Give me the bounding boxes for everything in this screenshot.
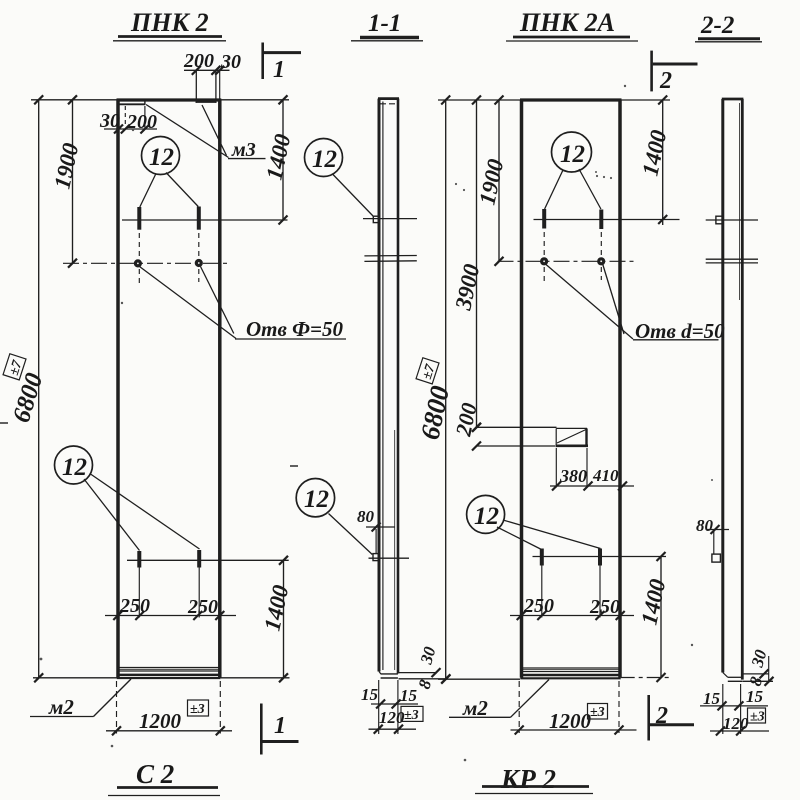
dimension 1200 (PNK2)	[106, 681, 232, 735]
dimension 1900 (PNK2A)	[474, 96, 508, 266]
svg-text:15: 15	[703, 689, 721, 708]
svg-text:12: 12	[474, 503, 499, 530]
bottom tie bars (PNK2A)	[533, 549, 667, 566]
section marker 2 top	[652, 51, 698, 94]
bottom tie bars (PNK2)	[127, 550, 289, 568]
title C 2	[108, 759, 220, 796]
opening rectangle (PNK2A)	[556, 428, 589, 446]
title PNK 2	[113, 8, 226, 41]
dimension 1400 bottom (PNK2)	[221, 556, 294, 683]
hole right	[195, 259, 203, 267]
bottom-left extension (PNK2A)	[438, 678, 520, 680]
svg-text:200: 200	[126, 111, 157, 133]
dimension 200 (PNK2A opening)	[450, 401, 556, 451]
svg-text:Отв d=50: Отв d=50	[635, 319, 725, 343]
dimensions 250/250 (PNK2)	[105, 568, 236, 621]
label M2 (PNK2A)	[449, 680, 549, 721]
PNK2 top dim 200/30	[183, 50, 241, 75]
section 2-2 bottom chamfer	[723, 673, 743, 682]
title PNK 2A	[506, 8, 638, 41]
section 2-2 bottom dims 15/15/120	[700, 684, 769, 736]
dimensions 380/410 (PNK2A)	[550, 448, 634, 491]
title 2-2	[695, 12, 762, 42]
svg-text:м2: м2	[462, 696, 488, 720]
section 2-2 anchor square top	[706, 216, 758, 224]
svg-text:200: 200	[183, 50, 214, 72]
panel PNK2A bottom strip M2	[520, 668, 620, 678]
label M2 (PNK2)	[30, 679, 131, 719]
svg-text:380: 380	[559, 466, 587, 486]
label M3 + leaders	[146, 105, 266, 162]
svg-text:30: 30	[99, 110, 120, 132]
title KR 2	[475, 764, 593, 794]
svg-text:410: 410	[592, 466, 619, 485]
svg-text:1: 1	[274, 713, 286, 739]
hole lines 1-1	[364, 256, 416, 262]
title 1-1	[351, 10, 423, 41]
svg-text:12: 12	[304, 486, 329, 513]
callout circle 12 (1-1 lower) + 80 dim + anchor square	[296, 479, 409, 561]
dimension 3900 (PNK2A)	[450, 96, 484, 432]
label Otv d=50 + leaders	[546, 265, 725, 344]
tie bar left	[137, 207, 141, 230]
svg-text:15: 15	[361, 685, 379, 704]
svg-text:12: 12	[312, 146, 337, 173]
PNK2 top-right notch	[196, 71, 220, 103]
PNK2A top-left extension	[438, 99, 520, 101]
speckles	[0, 423, 298, 466]
svg-text:250: 250	[119, 595, 150, 617]
callout circle 12 (PNK2A lower)	[467, 495, 601, 549]
svg-text:С 2: С 2	[136, 759, 174, 789]
dimension 1900 (PNK2)	[49, 95, 83, 267]
svg-text:15: 15	[746, 687, 764, 706]
holes row PNK2	[63, 233, 229, 284]
dimension 6800 (PNK2A)	[415, 96, 456, 684]
svg-text:12: 12	[560, 141, 585, 168]
panel PNK2 bottom strip M2	[117, 668, 221, 679]
svg-text:250: 250	[187, 596, 218, 618]
svg-text:1: 1	[273, 57, 285, 83]
svg-text:30: 30	[220, 51, 241, 73]
callout circle 12 (PNK2 top)	[140, 137, 198, 208]
svg-text:м3: м3	[231, 139, 256, 161]
svg-text:250: 250	[523, 595, 554, 617]
svg-text:м2: м2	[48, 695, 74, 719]
dimensions 250/250 (PNK2A)	[510, 566, 634, 621]
svg-text:250: 250	[589, 596, 620, 618]
hole lines 2-2	[706, 259, 758, 263]
dimension 1400 top (PNK2)	[221, 95, 296, 224]
svg-text:±3: ±3	[190, 702, 205, 717]
svg-text:±3: ±3	[590, 705, 605, 720]
svg-text:1200: 1200	[549, 709, 592, 733]
svg-text:ПНК 2: ПНК 2	[130, 8, 209, 37]
callout circle 12 (1-1 top) + anchor square	[305, 139, 418, 223]
holes row PNK2A	[498, 232, 638, 281]
svg-text:±3: ±3	[404, 708, 419, 723]
top-left extension line	[31, 99, 117, 101]
section marker 2 bottom	[649, 695, 694, 741]
dimension 1400 bottom (PNK2A)	[621, 552, 672, 682]
80 dim + anchor square (2-2 lower)	[696, 516, 729, 562]
section 1-1 bottom dims 15/15/120	[361, 680, 423, 734]
hole left	[134, 259, 142, 267]
svg-text:КР 2: КР 2	[500, 764, 556, 794]
dimension 1200 (PNK2A)	[511, 681, 637, 735]
svg-text:±3: ±3	[750, 710, 765, 725]
svg-text:2-2: 2-2	[700, 12, 734, 39]
svg-text:1-1: 1-1	[368, 10, 401, 37]
callout circle 12 (PNK2 lower)	[55, 446, 200, 551]
svg-text:12: 12	[149, 144, 174, 171]
tie bar row (PNK2A top)	[534, 209, 680, 229]
section marker 1 bottom	[261, 704, 298, 755]
svg-text:12: 12	[62, 454, 87, 481]
callout circle 12 (PNK2A top)	[545, 132, 601, 209]
svg-text:ПНК 2А: ПНК 2А	[519, 8, 615, 37]
svg-text:120: 120	[723, 714, 749, 733]
svg-text:1200: 1200	[139, 709, 182, 733]
section 1-1 bottom chamfer	[379, 672, 398, 679]
tie bar row line (PNK2 top)	[122, 207, 288, 230]
panel PNK2 outline	[117, 100, 222, 678]
PNK2 notch dim 30/200 (inner)	[99, 106, 157, 134]
section marker 1 top	[263, 43, 301, 84]
PNK2 top-left notch	[118, 100, 145, 105]
svg-text:15: 15	[400, 686, 418, 705]
section 1-1 bar	[378, 99, 399, 674]
svg-text:2: 2	[659, 68, 672, 94]
svg-text:80: 80	[357, 507, 375, 526]
section 2-2 bottom dims 30/8	[743, 647, 774, 688]
label Otv F=50 + leaders	[140, 267, 347, 342]
svg-text:Отв Ф=50: Отв Ф=50	[246, 317, 343, 341]
tie bar right	[197, 207, 201, 230]
dimension 6800 (PNK2)	[3, 95, 48, 682]
bottom-left extension (PNK2)	[33, 677, 117, 679]
svg-text:2: 2	[655, 703, 668, 729]
dimension 1400 top (PNK2A)	[622, 96, 672, 226]
section 2-2 bar	[722, 99, 744, 680]
section 1-1 bottom dims 30/8	[399, 644, 451, 691]
panel PNK2A outline	[520, 100, 622, 678]
